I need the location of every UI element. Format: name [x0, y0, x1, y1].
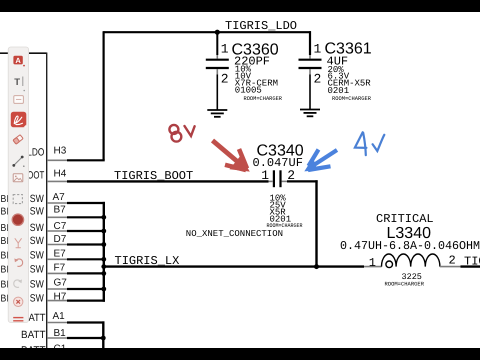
- wire TIGRIS LX: [104, 265, 364, 267]
- connector body right edge: [46, 53, 48, 349]
- svg-text:SW: SW: [30, 222, 44, 234]
- bus joining A1-C1: [102, 321, 104, 350]
- junction node on LDO net: [215, 30, 220, 35]
- wire out to right net: [461, 265, 480, 267]
- svg-text:0.047UF: 0.047UF: [253, 156, 303, 170]
- tool icon: note: [14, 96, 24, 104]
- svg-text:A1: A1: [53, 311, 66, 322]
- svg-text:D7: D7: [54, 234, 67, 245]
- svg-text:LDO: LDO: [27, 147, 44, 159]
- tool icon: pen (selected): [11, 112, 26, 128]
- svg-text:01005: 01005: [235, 86, 262, 96]
- svg-text:BATT: BATT: [21, 329, 46, 341]
- tool icon: text-style A: [13, 56, 25, 67]
- pins A7-H7 rows: [30, 192, 105, 305]
- svg-text:1: 1: [314, 41, 322, 56]
- pin F7: [47, 272, 67, 274]
- svg-text:BI: BI: [1, 265, 9, 276]
- svg-text:2: 2: [221, 72, 229, 87]
- svg-text:SW: SW: [30, 250, 44, 262]
- pin H4 + wire TIGRIS BOOT: [27, 169, 268, 183]
- top letterbox bar: [0, 0, 480, 12]
- pin C7: [47, 230, 67, 232]
- svg-text:SW: SW: [30, 193, 44, 205]
- tool icon: text cursor T: [14, 77, 25, 92]
- inductor L3340: [340, 212, 480, 288]
- svg-text:F7: F7: [54, 263, 66, 274]
- pin C1 (clipped by bar): [21, 344, 67, 357]
- pin B1: [21, 328, 104, 341]
- svg-text:ATT: ATT: [29, 312, 47, 324]
- wire from C3340 down to LX: [315, 180, 317, 266]
- svg-text:SW: SW: [30, 278, 44, 290]
- connector body top edge: [0, 52, 47, 54]
- svg-text:SW: SW: [30, 235, 44, 247]
- svg-text:A: A: [15, 56, 21, 65]
- pin H7: [47, 300, 67, 302]
- pin B7: [47, 216, 67, 218]
- tool icon: redo: [14, 279, 22, 287]
- svg-text:1: 1: [221, 41, 229, 56]
- svg-text:BI: BI: [1, 279, 9, 290]
- svg-text:ROOM=CHARGER: ROOM=CHARGER: [332, 95, 372, 102]
- svg-text:2: 2: [287, 168, 295, 183]
- svg-text:CRITICAL: CRITICAL: [376, 212, 434, 226]
- pin G7: [47, 288, 67, 290]
- annotation toolbar panel: [8, 47, 28, 323]
- svg-text:BI: BI: [1, 293, 9, 304]
- svg-text:SW: SW: [30, 264, 44, 276]
- bus junction dots: [101, 215, 106, 291]
- left clipped labels BI rows: [1, 194, 9, 305]
- wire H3 vertical riser: [102, 31, 104, 160]
- wire corner down to C3361: [309, 31, 311, 55]
- tool icon: close x: [14, 297, 23, 306]
- tool icon: dropper/glass: [15, 239, 21, 248]
- handwritten 8v (red): [169, 125, 194, 142]
- junction node on LX net: [314, 264, 319, 269]
- pin D7: [47, 244, 67, 246]
- capacitor C3361: [299, 41, 372, 110]
- svg-text:NO_XNET_CONNECTION: NO_XNET_CONNECTION: [186, 229, 283, 239]
- tool icon: eraser: [13, 135, 23, 144]
- svg-text:1: 1: [261, 168, 269, 183]
- svg-text:H3: H3: [54, 146, 67, 157]
- svg-text:C7: C7: [54, 221, 67, 232]
- capacitor C3360: [206, 33, 283, 110]
- svg-text:G7: G7: [54, 277, 68, 288]
- capacitor C3340: [253, 143, 318, 229]
- svg-text:ROOM=CHARGER: ROOM=CHARGER: [244, 95, 283, 102]
- blue annotation arrow: [304, 150, 337, 172]
- svg-text:BI: BI: [1, 236, 9, 247]
- svg-text:H7: H7: [54, 291, 67, 302]
- svg-text:2: 2: [449, 254, 456, 268]
- tool icon: undo: [14, 258, 22, 266]
- svg-text:TIGRIS_LDO: TIGRIS_LDO: [225, 19, 297, 33]
- svg-text:B7: B7: [54, 205, 67, 216]
- tool icon: image: [13, 174, 23, 182]
- pin H3: [27, 146, 104, 161]
- svg-text:BI: BI: [1, 194, 9, 205]
- pin A1: [29, 311, 105, 324]
- red annotation arrow: [213, 141, 250, 172]
- svg-text:1: 1: [369, 256, 376, 270]
- bottom letterbox bar: [0, 348, 480, 360]
- svg-text:BI: BI: [1, 207, 9, 218]
- tool icon: line: [12, 156, 24, 167]
- svg-text:A7: A7: [53, 192, 66, 203]
- bus joining A7-H7: [103, 202, 105, 302]
- svg-text:OOT: OOT: [27, 170, 44, 182]
- svg-text:ROOM=CHARGER: ROOM=CHARGER: [267, 222, 304, 229]
- tool icon: dashed selection: [13, 195, 22, 204]
- ground (C3360): [207, 110, 227, 117]
- svg-text:TIGRIS_BOOT: TIGRIS_BOOT: [114, 169, 193, 183]
- svg-text:ROOM=CHARGER: ROOM=CHARGER: [385, 281, 425, 288]
- svg-text:SW: SW: [30, 292, 44, 304]
- svg-text:T: T: [14, 77, 20, 88]
- tool icon: colour swatch: [12, 214, 23, 225]
- wire TIGRIS_LDO horizontal: [103, 31, 311, 33]
- svg-text:2: 2: [314, 72, 322, 87]
- handwritten 4v (blue): [355, 132, 384, 155]
- tool icon: menu lines: [13, 318, 23, 321]
- svg-text:BI: BI: [1, 251, 9, 262]
- svg-text:H4: H4: [54, 169, 67, 180]
- svg-text:E7: E7: [54, 249, 67, 260]
- ground (C3361): [300, 110, 320, 117]
- svg-text:SW: SW: [30, 206, 44, 218]
- pin A7: [47, 202, 67, 204]
- junction dot B1: [101, 336, 106, 341]
- svg-text:BI: BI: [1, 223, 9, 234]
- svg-text:0.47UH-6.8A-0.046OHM: 0.47UH-6.8A-0.046OHM: [340, 239, 480, 253]
- svg-text:B1: B1: [54, 328, 67, 339]
- pin E7: [47, 258, 67, 260]
- svg-text:TIG: TIG: [464, 255, 480, 269]
